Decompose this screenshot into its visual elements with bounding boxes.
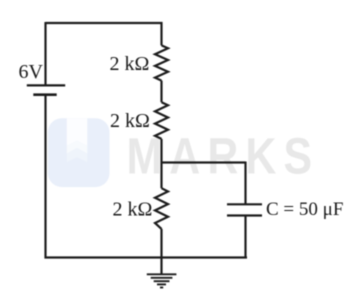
watermark logo rounded square <box>48 118 110 187</box>
chevron band 2 <box>67 141 88 154</box>
ground stub wire <box>160 258 162 275</box>
battery B1 positive plate <box>27 84 65 86</box>
svg-text:6V: 6V <box>19 61 44 83</box>
wire: between R2 and R3 (passes node A) <box>160 139 162 188</box>
wire: left vertical upper (battery top lead) <box>44 22 46 85</box>
wire: left vertical lower (battery bottom lead) <box>44 95 46 259</box>
ground symbol <box>147 274 177 287</box>
wire: R3 bottom lead <box>160 229 162 258</box>
capacitor C top plate <box>227 203 262 205</box>
white bookmark slot <box>67 118 88 146</box>
chevron band 3 <box>67 148 88 162</box>
wire: right branch lower (capacitor bottom lead) <box>244 216 246 259</box>
battery B1 negative plate <box>33 93 56 96</box>
resistor R2 2k <box>155 102 168 139</box>
wire: top horizontal <box>46 22 163 24</box>
wire: between R1 and R2 <box>160 81 162 103</box>
capacitor C bottom plate <box>227 214 262 216</box>
wire: right branch upper (capacitor top lead) <box>244 162 246 205</box>
svg-text:2 kΩ: 2 kΩ <box>110 110 150 132</box>
resistor R3 2k <box>155 188 168 229</box>
wire: middle branch top lead <box>160 22 162 45</box>
wire: bottom horizontal <box>45 256 248 258</box>
node A branch wire to capacitor <box>161 161 246 163</box>
svg-text:2 kΩ: 2 kΩ <box>110 53 150 75</box>
svg-text:C = 50 μF: C = 50 μF <box>266 199 343 220</box>
resistor R1 2k <box>155 45 168 80</box>
svg-text:2 kΩ: 2 kΩ <box>113 198 153 220</box>
